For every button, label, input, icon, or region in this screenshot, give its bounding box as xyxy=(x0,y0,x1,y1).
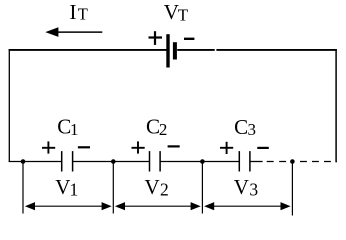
node 2 junction dot xyxy=(111,159,116,164)
label V1 xyxy=(55,175,78,199)
label IT xyxy=(69,0,87,24)
C1 + polarity sign xyxy=(42,141,55,153)
svg-text:V: V xyxy=(164,0,179,24)
capacitor C3 plates xyxy=(239,151,250,171)
node 1 junction dot xyxy=(21,159,26,164)
battery VT long plate (+) xyxy=(166,34,169,67)
label VT xyxy=(164,0,189,24)
capacitor C1 plates xyxy=(62,151,73,171)
svg-text:1: 1 xyxy=(70,120,79,139)
label C1 xyxy=(57,114,78,139)
C3 - polarity sign xyxy=(257,147,269,149)
current arrow IT (pointing left) xyxy=(45,27,102,37)
svg-text:C: C xyxy=(234,115,248,139)
svg-text:2: 2 xyxy=(159,120,168,139)
svg-text:T: T xyxy=(178,5,189,24)
C1 - polarity sign xyxy=(78,146,90,148)
svg-text:I: I xyxy=(69,0,76,24)
wire top right outer (after small gap) xyxy=(216,49,336,51)
dimension tick 1 xyxy=(22,162,24,214)
battery - polarity sign xyxy=(184,38,194,40)
wire left vertical xyxy=(8,49,10,162)
svg-text:1: 1 xyxy=(70,180,79,200)
label C2 xyxy=(146,115,167,140)
node 4 junction dot xyxy=(290,159,295,164)
svg-text:V: V xyxy=(234,175,249,199)
label V2 xyxy=(145,175,169,199)
V3 dimension arrow xyxy=(204,202,291,210)
capacitor C2 plates xyxy=(150,151,161,171)
svg-text:V: V xyxy=(55,175,70,199)
wire bottom segment A (left corner to C1) xyxy=(9,161,62,163)
wire bottom segment D (C3 stub solid) xyxy=(250,161,263,163)
wire right vertical xyxy=(335,49,337,162)
wire bottom segment B (C1 to C2) xyxy=(73,161,150,163)
wire bottom segment E (dashed to right corner) xyxy=(267,161,287,163)
dimension tick 4 xyxy=(291,162,293,216)
node 3 junction dot xyxy=(200,159,205,164)
wire top left (battery left) xyxy=(9,49,167,51)
battery VT short plate (-) xyxy=(173,42,177,59)
wire bottom segment F (dashed, node 4 to right corner) xyxy=(300,161,337,163)
wire bottom segment C (C2 to C3) xyxy=(160,161,239,163)
battery + polarity sign xyxy=(149,31,163,45)
dimension tick 3 xyxy=(201,162,203,214)
C2 + polarity sign xyxy=(132,141,145,153)
label C3 xyxy=(234,115,256,139)
V2 dimension arrow xyxy=(115,202,201,210)
label V3 xyxy=(234,175,259,199)
svg-text:V: V xyxy=(145,175,160,199)
svg-text:3: 3 xyxy=(248,120,257,139)
C2 - polarity sign xyxy=(168,145,180,147)
svg-text:2: 2 xyxy=(160,180,169,200)
svg-text:T: T xyxy=(78,5,88,24)
wire top right (battery right) xyxy=(177,49,215,51)
svg-text:3: 3 xyxy=(249,180,258,200)
dimension tick 2 xyxy=(112,162,114,214)
C3 + polarity sign xyxy=(220,142,233,154)
V1 dimension arrow xyxy=(25,202,112,210)
